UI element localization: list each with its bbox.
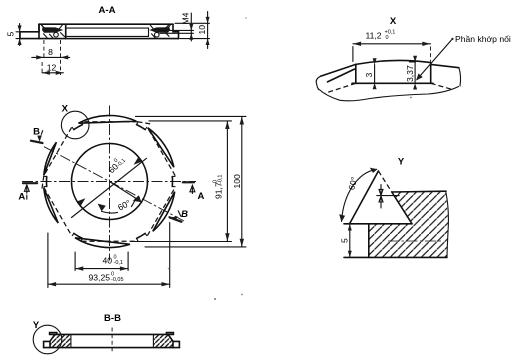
detail callout circle X [61, 111, 89, 139]
countersunk screw right (dark) [149, 27, 170, 33]
svg-text:Y: Y [33, 320, 40, 331]
dim 3 [374, 65, 376, 84]
section line B-B diagonal [44, 147, 184, 221]
hidden dashed lines [325, 83, 454, 93]
svg-text:-0,1: -0,1 [218, 175, 224, 184]
dim M4 [190, 13, 192, 41]
right end profile: rim step and groove slope [169, 335, 180, 348]
bottom line [344, 256, 447, 258]
right rim tip [173, 24, 179, 38]
countersink V right [150, 24, 172, 31]
extension lines bottom 93.25 [48, 223, 170, 288]
angle arc 60deg [102, 198, 136, 213]
svg-text:100: 100 [232, 174, 242, 189]
dimension 91.7 -0.1 vertical [226, 121, 228, 241]
wedge left slope up to apex [350, 171, 379, 224]
top surface line [392, 190, 446, 193]
leader Phan khop noi [417, 39, 453, 80]
claw block inner edges [71, 334, 153, 347]
centerline horizontal [22, 181, 196, 183]
svg-text:8: 8 [48, 47, 53, 57]
ext lines right for M4 and 10 [160, 23, 210, 38]
svg-text:40: 40 [103, 256, 113, 266]
claw lenses [44, 115, 175, 247]
svg-text:Phần khớp nối: Phần khớp nối [455, 34, 511, 44]
right break edge freehand [446, 191, 449, 257]
left break edge freehand [316, 76, 320, 89]
svg-text:5: 5 [340, 238, 350, 243]
left end profile: rim step and groove slope [44, 335, 55, 348]
countersunk screw left (dark) [42, 27, 63, 33]
claw right wall [430, 63, 432, 84]
svg-text:0: 0 [386, 35, 389, 41]
svg-text:B-B: B-B [104, 313, 121, 324]
countersink V left [41, 24, 63, 31]
dim text 60 0/-0.1 [105, 154, 127, 175]
left chamfer lines [321, 64, 356, 82]
section arrow B upper-left [31, 141, 43, 143]
svg-text:-0,05: -0,05 [111, 277, 124, 283]
recess rectangle [66, 28, 149, 36]
svg-text:M4: M4 [181, 12, 191, 24]
left rim tip [20, 24, 39, 38]
left claw block edges [39, 24, 66, 38]
svg-text:-0,1: -0,1 [114, 260, 123, 266]
wedge right slope hidden above surface [378, 171, 391, 192]
scan speckle dots [214, 298, 216, 300]
dim 12 [41, 62, 43, 75]
right top bump [166, 333, 173, 335]
right chamfer line [431, 64, 459, 67]
small depth dim near apex [377, 195, 399, 197]
right claw hatched [153, 334, 173, 347]
svg-text:5: 5 [6, 32, 16, 37]
hatch centerline mark [388, 240, 443, 242]
rim arcs between claws [47, 125, 173, 239]
svg-text:B: B [33, 126, 40, 137]
svg-text:B: B [181, 209, 188, 220]
svg-text:12: 12 [47, 63, 57, 73]
dimension 100 vertical [241, 117, 243, 247]
claw left wall [355, 64, 357, 83]
ledge line [344, 223, 412, 225]
dimension line D60 diagonal [72, 158, 147, 217]
dashed chords on flats [42, 122, 175, 242]
section arrow A left [23, 182, 37, 184]
svg-text:Y: Y [398, 157, 405, 168]
svg-text:3: 3 [364, 73, 374, 78]
left claw hatched [50, 334, 71, 347]
radial step lines at claw tips [44, 122, 175, 241]
rim block vertical [368, 224, 370, 258]
svg-text:A: A [198, 191, 205, 202]
svg-text:11,2: 11,2 [366, 31, 382, 41]
dashed centerline [111, 328, 113, 352]
dim 3.37 [409, 62, 415, 83]
section arrow A right [183, 181, 194, 183]
dim 10 [207, 12, 209, 49]
dim 8 [43, 40, 45, 60]
svg-text:X: X [390, 16, 397, 27]
radius line for 60 deg angle [110, 182, 142, 203]
strip bottom line [44, 347, 180, 349]
extension lines bottom 40 [75, 252, 128, 271]
svg-text:93,25: 93,25 [89, 273, 111, 283]
svg-text:X: X [62, 104, 69, 115]
claw top arc [356, 60, 431, 64]
bore circle D60 [72, 144, 148, 220]
60 deg dimension arc [342, 169, 377, 221]
label 60deg [116, 198, 132, 213]
wedge right slope [392, 192, 412, 224]
dim 5 left [16, 32, 22, 39]
left top bump [50, 333, 57, 335]
svg-text:A-A: A-A [99, 5, 116, 16]
svg-text:10: 10 [197, 25, 207, 35]
label 60deg rotated [346, 176, 359, 191]
detail callout circle Y [33, 325, 62, 354]
dim 5 [349, 224, 351, 258]
extension lines right side [131, 116, 246, 247]
svg-text:3,37: 3,37 [405, 65, 415, 82]
svg-text:A: A [18, 191, 25, 202]
section arrow B lower-right [170, 217, 182, 222]
plate outline bottom [20, 38, 179, 40]
base line [352, 82, 433, 84]
right break edge freehand [459, 68, 461, 86]
hatched material [369, 191, 449, 257]
dim 11.2 [353, 43, 431, 45]
plate outline top [39, 23, 173, 25]
centerline vertical [109, 106, 111, 261]
dimension 93.25 -0.05 [48, 283, 170, 285]
bottom break line freehand [319, 87, 459, 101]
dimension 40 -0.1 [75, 268, 128, 270]
strip top line [50, 333, 174, 335]
